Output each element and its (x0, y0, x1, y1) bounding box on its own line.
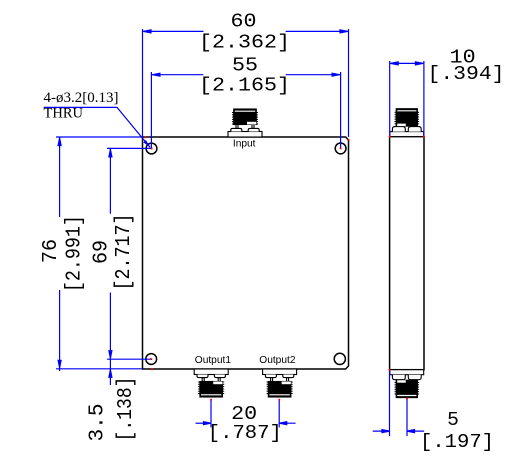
svg-text:[2.991]: [2.991] (63, 215, 87, 292)
svg-text:[2.362]: [2.362] (199, 32, 290, 54)
svg-text:[.787]: [.787] (208, 422, 282, 444)
svg-text:[2.165]: [2.165] (199, 75, 290, 97)
svg-text:69: 69 (89, 240, 113, 264)
svg-text:Input: Input (233, 138, 256, 149)
svg-text:[.138]: [.138] (114, 377, 138, 442)
svg-text:60: 60 (231, 11, 257, 33)
svg-text:5: 5 (447, 409, 459, 431)
svg-text:[.394]: [.394] (428, 63, 505, 85)
svg-text:Output1: Output1 (195, 355, 232, 366)
svg-text:[.197]: [.197] (420, 431, 494, 453)
svg-text:4-ø3.2[0.13]: 4-ø3.2[0.13] (44, 90, 119, 106)
svg-text:55: 55 (232, 55, 258, 77)
svg-text:THRU: THRU (44, 106, 84, 122)
svg-text:3.5: 3.5 (85, 404, 109, 442)
svg-text:Output2: Output2 (259, 355, 296, 366)
svg-text:76: 76 (39, 239, 63, 263)
svg-text:[2.717]: [2.717] (112, 214, 136, 291)
